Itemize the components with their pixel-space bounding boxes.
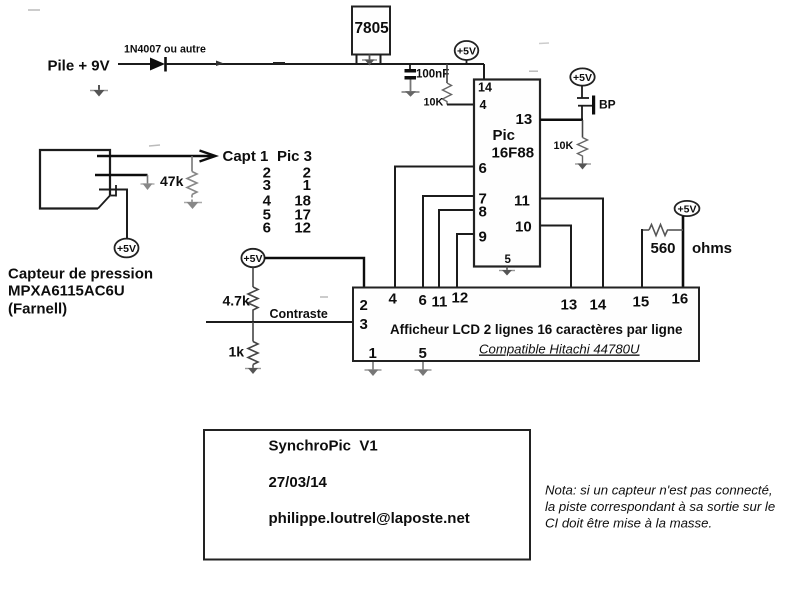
svg-text:3: 3 — [360, 316, 368, 333]
LCD display box — [353, 288, 699, 363]
svg-text:Afficheur LCD 2 lignes 16 cara: Afficheur LCD 2 lignes 16 caractères par… — [390, 322, 682, 337]
svg-text:4: 4 — [389, 291, 398, 308]
svg-text:1: 1 — [369, 345, 377, 362]
svg-text:12: 12 — [294, 220, 311, 237]
resistor R1 10K (MCLR pull-up) — [424, 64, 452, 109]
svg-text:10K: 10K — [554, 140, 574, 152]
svg-text:ohms: ohms — [692, 240, 732, 257]
svg-text:1: 1 — [303, 177, 311, 194]
wire +5V to LCD pin 2 — [265, 258, 365, 287]
svg-text:5: 5 — [505, 254, 512, 266]
wire battery to diode — [118, 63, 151, 65]
svg-text:CI doit être mise à la masse.: CI doit être mise à la masse. — [545, 516, 712, 531]
capacitor C1 100nF — [405, 64, 450, 91]
sensor output wire with arrow to table — [97, 151, 216, 162]
svg-text:Nota: si un capteur n'est pas: Nota: si un capteur n'est pas connecté, — [545, 483, 773, 498]
svg-text:6: 6 — [419, 292, 427, 309]
wire R1 to pin 4 — [447, 104, 474, 106]
+5V node near regulator — [455, 41, 479, 64]
resistor R3 4.7k — [223, 268, 259, 312]
svg-text:(Farnell): (Farnell) — [8, 301, 67, 318]
ground LCD pin 5 — [415, 362, 432, 376]
svg-text:+5V: +5V — [678, 204, 697, 216]
ground LCD pin 1 — [365, 362, 382, 376]
regulator U2 7805 box — [352, 7, 390, 55]
svg-text:6: 6 — [263, 220, 271, 237]
sensor wire 2 to ground — [95, 174, 148, 176]
svg-text:1k: 1k — [229, 344, 245, 360]
ground regulator center pin — [362, 55, 377, 66]
svg-text:16: 16 — [672, 291, 689, 308]
svg-text:14: 14 — [478, 81, 492, 95]
svg-text:560: 560 — [651, 240, 676, 257]
faint scan artifacts — [28, 10, 549, 297]
svg-text:la piste correspondant à sa so: la piste correspondant à sa sortie sur l… — [545, 499, 775, 514]
svg-text:3: 3 — [263, 177, 271, 194]
svg-text:12: 12 — [452, 290, 469, 307]
wire pin 10 to LCD pin 13 — [540, 226, 571, 288]
svg-text:Capt 1: Capt 1 — [223, 148, 269, 165]
svg-text:10K: 10K — [424, 97, 444, 109]
svg-text:11: 11 — [514, 193, 530, 210]
svg-text:8: 8 — [479, 204, 487, 221]
table header Capt 1 Pic 3 — [223, 148, 313, 165]
resistor R2 10K (pull-down BP) — [554, 120, 588, 164]
wire +5V down to LCD pin 16 — [682, 216, 685, 287]
ground below capacitor C1 — [402, 91, 420, 97]
wire pin 6 to LCD pin 4 — [395, 167, 474, 288]
diode D1 1N4007 — [150, 57, 166, 72]
svg-text:13: 13 — [516, 111, 533, 128]
wire R5 left down to LCD pin 15 — [641, 229, 643, 287]
svg-text:Contraste: Contraste — [270, 307, 328, 321]
svg-text:6: 6 — [479, 160, 487, 177]
svg-text:1N4007 ou autre: 1N4007 ou autre — [124, 44, 206, 56]
regulator legs — [357, 55, 381, 65]
microcontroller U1 Pic 16F88 box — [474, 80, 540, 267]
ground pin 5 of U1 — [499, 267, 515, 276]
svg-text:100nF: 100nF — [416, 69, 449, 81]
svg-text:+5V: +5V — [117, 243, 136, 255]
label Capteur de pression MPXA6115AC6U (Farnell) — [8, 266, 153, 318]
wire pin 13 to button node — [540, 118, 583, 121]
wire pin 7 to LCD pin 6 — [423, 196, 474, 287]
wire pin 9 to LCD pin 12 — [457, 234, 474, 287]
svg-text:47k: 47k — [160, 173, 184, 189]
svg-text:4: 4 — [480, 98, 487, 112]
wire pin 11 to LCD pin 14 — [540, 199, 603, 288]
wire contrast node to LCD pin 3 — [206, 311, 353, 322]
svg-text:Pic: Pic — [493, 127, 516, 144]
svg-text:Compatible Hitachi 44780U: Compatible Hitachi 44780U — [479, 342, 640, 357]
svg-text:Pile + 9V: Pile + 9V — [48, 58, 110, 75]
ground sensor wire 2 — [141, 175, 155, 190]
svg-text:5: 5 — [419, 345, 427, 362]
wire +5V rail down to pin 14 — [483, 64, 485, 80]
svg-text:11: 11 — [432, 294, 448, 311]
resistor R6 47k — [160, 156, 197, 202]
wire +9V rail diode to regulator and +5V rail to pin14 corner — [166, 61, 484, 67]
resistor R5 560 ohms — [642, 225, 683, 258]
svg-text:13: 13 — [561, 297, 578, 314]
svg-text:7805: 7805 — [355, 20, 390, 37]
table rows — [263, 165, 311, 237]
push button BP — [577, 86, 616, 121]
resistor R4 1k — [229, 322, 259, 365]
svg-text:4.7k: 4.7k — [223, 293, 250, 309]
+5V node sensor supply — [115, 239, 139, 258]
svg-text:15: 15 — [633, 294, 650, 311]
svg-text:27/03/14: 27/03/14 — [269, 474, 328, 491]
svg-text:9: 9 — [479, 229, 487, 246]
svg-text:+5V: +5V — [244, 253, 263, 265]
svg-text:Capteur de pression: Capteur de pression — [8, 266, 153, 283]
ground below R2 — [575, 164, 591, 170]
+5V node above R5 560 — [675, 201, 700, 216]
+5V node above push button — [570, 68, 594, 85]
svg-text:2: 2 — [360, 297, 368, 314]
svg-text:Pic 3: Pic 3 — [277, 148, 312, 165]
svg-text:philippe.loutrel@laposte.net: philippe.loutrel@laposte.net — [269, 510, 470, 527]
sensor +5V supply wires — [99, 185, 127, 239]
svg-text:+5V: +5V — [457, 46, 476, 58]
wire pin 8 to LCD pin 11 — [439, 210, 474, 287]
svg-text:+5V: +5V — [573, 72, 592, 84]
svg-text:BP: BP — [599, 98, 616, 112]
note text — [545, 483, 775, 531]
svg-text:MPXA6115AC6U: MPXA6115AC6U — [8, 283, 125, 300]
svg-text:10: 10 — [515, 219, 532, 236]
pressure sensor box — [40, 150, 110, 209]
ground below R4 — [245, 365, 261, 375]
ground below battery — [90, 85, 108, 97]
svg-text:16F88: 16F88 — [492, 145, 535, 162]
svg-text:14: 14 — [590, 297, 607, 314]
title box SynchroPic — [204, 430, 530, 560]
svg-text:SynchroPic V1: SynchroPic V1 — [269, 438, 378, 455]
+5V node contrast divider — [241, 249, 264, 267]
ground below R6 — [184, 202, 202, 209]
